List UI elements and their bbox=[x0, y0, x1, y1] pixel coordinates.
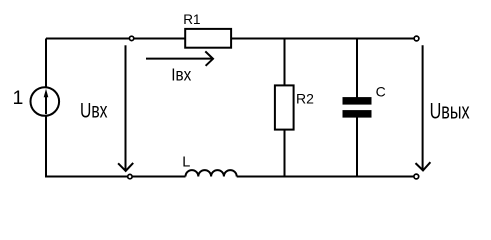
capacitor C plates bbox=[343, 97, 372, 118]
wire top rail bbox=[46, 38, 414, 40]
node bottom (input) bbox=[128, 174, 132, 178]
wire R2 branch bbox=[284, 39, 286, 177]
svg-text:Uвх: Uвх bbox=[80, 99, 108, 123]
Uvyx measuring arrow bbox=[416, 45, 431, 170]
svg-text:R2: R2 bbox=[296, 90, 314, 106]
terminal top right bbox=[414, 36, 419, 41]
terminal bottom right bbox=[414, 174, 419, 179]
svg-text:1: 1 bbox=[13, 87, 24, 109]
svg-text:L: L bbox=[182, 155, 190, 171]
svg-text:C: C bbox=[376, 83, 386, 99]
resistor R2 bbox=[275, 85, 294, 129]
node top (input) bbox=[129, 36, 133, 40]
svg-text:R1: R1 bbox=[183, 12, 200, 27]
wire bottom rail right segment bbox=[237, 176, 414, 178]
Ivx current arrow bbox=[146, 51, 213, 65]
wire C branch upper bbox=[356, 39, 358, 98]
wire left rail bbox=[45, 39, 47, 177]
wire bottom rail left segment bbox=[45, 176, 186, 178]
inductor L bbox=[186, 170, 237, 176]
svg-text:Uвых: Uвых bbox=[430, 99, 470, 124]
wire C branch lower bbox=[356, 118, 358, 177]
svg-text:Iвх: Iвх bbox=[171, 64, 191, 84]
resistor R1 bbox=[185, 29, 231, 48]
current source 1 bbox=[31, 87, 60, 116]
Uvx measuring arrow bbox=[118, 45, 133, 171]
